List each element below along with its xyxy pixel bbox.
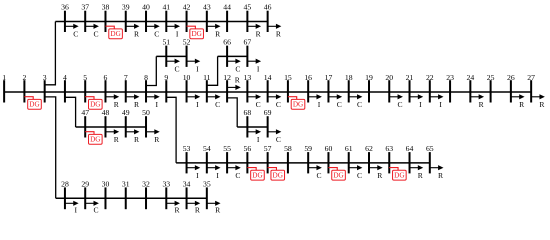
svg-text:3: 3 xyxy=(43,73,47,82)
svg-text:C: C xyxy=(235,65,240,74)
svg-text:4: 4 xyxy=(63,73,67,82)
svg-text:63: 63 xyxy=(385,144,393,153)
svg-text:27: 27 xyxy=(527,73,535,82)
svg-text:R: R xyxy=(215,205,221,214)
svg-text:C: C xyxy=(93,205,98,214)
svg-text:I: I xyxy=(419,100,422,109)
svg-text:23: 23 xyxy=(446,73,454,82)
svg-text:C: C xyxy=(357,171,362,180)
svg-text:R: R xyxy=(134,100,140,109)
svg-text:36: 36 xyxy=(61,3,69,12)
svg-text:R: R xyxy=(539,100,545,109)
svg-text:45: 45 xyxy=(244,3,252,12)
svg-text:65: 65 xyxy=(426,144,434,153)
svg-text:57: 57 xyxy=(264,144,272,153)
svg-text:C: C xyxy=(235,171,240,180)
svg-text:R: R xyxy=(438,171,444,180)
svg-text:60: 60 xyxy=(325,144,333,153)
svg-text:2: 2 xyxy=(22,73,26,82)
svg-text:30: 30 xyxy=(102,179,110,188)
svg-text:32: 32 xyxy=(142,179,150,188)
svg-text:C: C xyxy=(175,65,180,74)
svg-text:25: 25 xyxy=(487,73,495,82)
svg-text:I: I xyxy=(216,171,219,180)
svg-text:11: 11 xyxy=(203,73,211,82)
svg-text:22: 22 xyxy=(426,73,434,82)
svg-text:R: R xyxy=(256,30,262,39)
svg-text:I: I xyxy=(74,205,77,214)
svg-text:17: 17 xyxy=(325,73,333,82)
svg-text:DG: DG xyxy=(273,172,283,180)
svg-text:56: 56 xyxy=(244,144,252,153)
svg-text:R: R xyxy=(114,135,120,144)
svg-text:12: 12 xyxy=(223,73,231,82)
svg-text:I: I xyxy=(318,100,321,109)
svg-text:DG: DG xyxy=(191,30,201,38)
svg-text:68: 68 xyxy=(244,108,252,117)
svg-text:I: I xyxy=(257,135,260,144)
svg-text:DG: DG xyxy=(394,172,404,180)
svg-text:8: 8 xyxy=(144,73,148,82)
svg-text:C: C xyxy=(316,171,321,180)
svg-text:R: R xyxy=(418,171,424,180)
svg-text:I: I xyxy=(196,171,199,180)
svg-text:R: R xyxy=(215,30,221,39)
svg-text:C: C xyxy=(337,100,342,109)
svg-text:29: 29 xyxy=(81,179,89,188)
svg-text:50: 50 xyxy=(142,108,150,117)
svg-text:DG: DG xyxy=(252,172,262,180)
svg-text:C: C xyxy=(256,100,261,109)
svg-text:19: 19 xyxy=(365,73,373,82)
svg-text:DG: DG xyxy=(293,101,303,109)
svg-text:61: 61 xyxy=(345,144,353,153)
svg-text:C: C xyxy=(215,100,220,109)
svg-text:6: 6 xyxy=(104,73,108,82)
svg-text:I: I xyxy=(439,100,442,109)
svg-text:52: 52 xyxy=(183,38,191,47)
svg-text:15: 15 xyxy=(284,73,292,82)
svg-text:38: 38 xyxy=(102,3,110,12)
svg-text:5: 5 xyxy=(83,73,87,82)
svg-text:C: C xyxy=(398,100,403,109)
svg-text:55: 55 xyxy=(223,144,231,153)
svg-text:67: 67 xyxy=(244,38,252,47)
svg-text:R: R xyxy=(235,76,241,85)
svg-text:39: 39 xyxy=(122,3,130,12)
svg-text:DG: DG xyxy=(29,101,39,109)
svg-text:44: 44 xyxy=(223,3,231,12)
svg-text:40: 40 xyxy=(142,3,150,12)
svg-text:42: 42 xyxy=(183,3,191,12)
svg-text:41: 41 xyxy=(162,3,170,12)
svg-text:26: 26 xyxy=(507,73,515,82)
svg-text:59: 59 xyxy=(304,144,312,153)
svg-text:C: C xyxy=(276,100,281,109)
svg-text:DG: DG xyxy=(90,136,100,144)
svg-text:21: 21 xyxy=(406,73,414,82)
svg-text:R: R xyxy=(175,205,181,214)
svg-text:69: 69 xyxy=(264,108,272,117)
svg-text:R: R xyxy=(154,135,160,144)
svg-text:18: 18 xyxy=(345,73,353,82)
svg-text:43: 43 xyxy=(203,3,211,12)
svg-text:C: C xyxy=(154,30,159,39)
svg-text:R: R xyxy=(134,30,140,39)
svg-text:53: 53 xyxy=(183,144,191,153)
svg-text:10: 10 xyxy=(183,73,191,82)
svg-text:33: 33 xyxy=(162,179,170,188)
svg-text:R: R xyxy=(276,30,282,39)
svg-text:C: C xyxy=(357,100,362,109)
svg-text:I: I xyxy=(257,65,260,74)
svg-text:DG: DG xyxy=(90,101,100,109)
svg-text:28: 28 xyxy=(61,179,69,188)
svg-text:C: C xyxy=(73,30,78,39)
svg-text:R: R xyxy=(195,205,201,214)
svg-text:R: R xyxy=(377,171,383,180)
svg-text:46: 46 xyxy=(264,3,272,12)
svg-text:62: 62 xyxy=(365,144,373,153)
svg-text:14: 14 xyxy=(264,73,272,82)
svg-text:DG: DG xyxy=(333,172,343,180)
svg-text:58: 58 xyxy=(284,144,292,153)
svg-text:C: C xyxy=(276,135,281,144)
svg-text:R: R xyxy=(114,100,120,109)
svg-text:37: 37 xyxy=(81,3,89,12)
svg-text:51: 51 xyxy=(162,38,170,47)
svg-text:48: 48 xyxy=(102,108,110,117)
svg-text:64: 64 xyxy=(406,144,414,153)
svg-text:13: 13 xyxy=(244,73,252,82)
svg-text:35: 35 xyxy=(203,179,211,188)
svg-text:I: I xyxy=(196,65,199,74)
svg-text:49: 49 xyxy=(122,108,130,117)
svg-text:66: 66 xyxy=(223,38,231,47)
svg-text:7: 7 xyxy=(124,73,128,82)
svg-text:C: C xyxy=(93,30,98,39)
svg-text:R: R xyxy=(519,100,525,109)
svg-text:31: 31 xyxy=(122,179,130,188)
svg-text:1: 1 xyxy=(2,73,6,82)
svg-text:47: 47 xyxy=(81,108,89,117)
svg-text:I: I xyxy=(196,100,199,109)
svg-text:54: 54 xyxy=(203,144,211,153)
svg-text:24: 24 xyxy=(466,73,474,82)
svg-text:DG: DG xyxy=(110,30,120,38)
svg-text:I: I xyxy=(176,30,179,39)
svg-text:16: 16 xyxy=(304,73,312,82)
svg-text:I: I xyxy=(156,100,159,109)
svg-text:34: 34 xyxy=(183,179,191,188)
svg-text:R: R xyxy=(134,135,140,144)
svg-text:9: 9 xyxy=(164,73,168,82)
svg-text:20: 20 xyxy=(385,73,393,82)
svg-text:R: R xyxy=(479,100,485,109)
